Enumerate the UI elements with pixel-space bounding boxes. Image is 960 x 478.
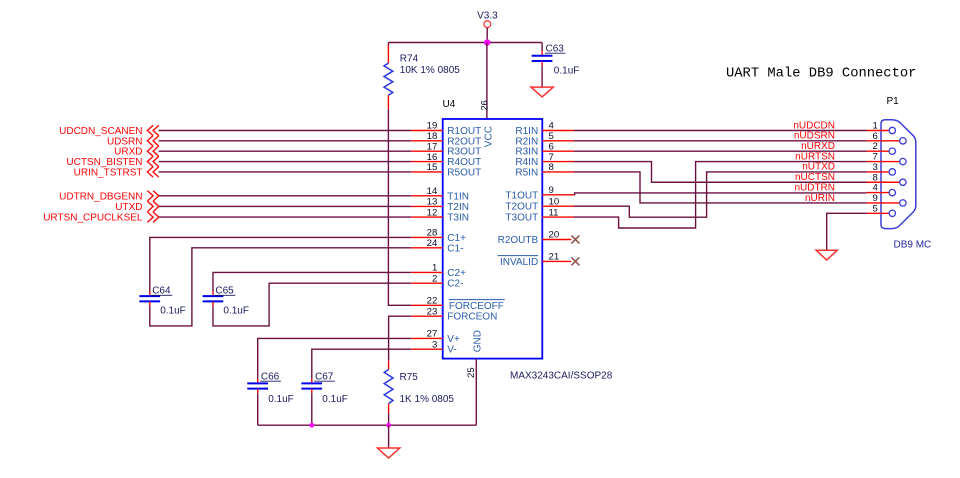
wire net UTXD — [159, 205, 412, 207]
svg-text:12: 12 — [427, 207, 438, 218]
svg-text:C2+: C2+ — [447, 268, 466, 279]
svg-text:URTSN_CPUCLKSEL: URTSN_CPUCLKSEL — [43, 213, 143, 224]
svg-text:R3IN: R3IN — [515, 147, 538, 158]
wire C67 to rail — [311, 393, 313, 425]
capacitor C67 — [301, 372, 347, 405]
ground at DB9 — [816, 250, 837, 260]
svg-text:VCC: VCC — [483, 126, 494, 147]
wire C64 bottom to C1- — [150, 248, 411, 326]
wire net nURIN — [574, 172, 867, 203]
svg-text:R4IN: R4IN — [515, 157, 538, 168]
wire V- to C67 — [312, 349, 411, 379]
connector P1 pin circles left column — [889, 127, 895, 216]
wire FORCEON to R75 — [389, 316, 412, 361]
no-connect X pin 21 — [571, 257, 579, 265]
svg-text:0.1uF: 0.1uF — [322, 394, 348, 405]
svg-text:17: 17 — [427, 141, 438, 152]
wire net UCTSN_BISTEN — [159, 161, 412, 163]
svg-text:U4: U4 — [443, 99, 456, 110]
svg-text:0.1uF: 0.1uF — [554, 66, 580, 77]
wire DB9 pin5 to ground — [827, 213, 867, 250]
svg-text:1K 1% 0805: 1K 1% 0805 — [400, 394, 455, 405]
svg-text:nURIN: nURIN — [805, 193, 835, 204]
U4 left pin numbers — [427, 121, 438, 351]
connector P1 DB9 pin numbers — [872, 121, 878, 215]
svg-text:16: 16 — [427, 152, 438, 163]
junction R75 rail — [386, 423, 391, 428]
svg-text:R3OUT: R3OUT — [447, 147, 481, 158]
ground bottom — [377, 448, 399, 458]
svg-text:9: 9 — [872, 193, 877, 204]
ground under C63 — [531, 87, 553, 97]
svg-text:13: 13 — [427, 197, 438, 208]
svg-text:2: 2 — [872, 141, 877, 152]
svg-text:R75: R75 — [400, 372, 419, 383]
wire net UDTRN_DBGENN — [159, 195, 412, 197]
wire net UDSRN — [159, 140, 412, 142]
svg-text:25: 25 — [466, 367, 477, 378]
svg-text:0.1uF: 0.1uF — [160, 306, 186, 317]
svg-text:15: 15 — [427, 162, 438, 173]
svg-text:C1+: C1+ — [447, 233, 466, 244]
connector P1 DB9 pin stubs — [867, 131, 900, 214]
U4 right pin names — [498, 126, 539, 268]
wire R75 to rail — [388, 414, 390, 426]
svg-text:11: 11 — [549, 207, 559, 218]
svg-text:8: 8 — [872, 172, 877, 183]
svg-text:UCTSN_BISTEN: UCTSN_BISTEN — [66, 157, 142, 168]
U4 right pin stubs — [542, 131, 574, 262]
title text — [726, 66, 916, 82]
svg-text:V-: V- — [447, 345, 456, 356]
svg-text:T1IN: T1IN — [447, 191, 469, 202]
svg-text:1: 1 — [432, 263, 437, 274]
wire net nUTXD — [574, 172, 867, 217]
svg-text:21: 21 — [549, 251, 560, 262]
svg-text:nUDSRN: nUDSRN — [794, 131, 835, 142]
wire C65 bottom to C2- — [213, 283, 411, 326]
svg-text:GND: GND — [473, 330, 484, 352]
capacitor C66 — [247, 372, 293, 405]
svg-text:1: 1 — [872, 121, 877, 132]
wire net nUDTRN — [574, 193, 867, 195]
svg-text:R1OUT: R1OUT — [447, 126, 481, 137]
svg-text:V+: V+ — [447, 334, 460, 345]
svg-text:0.1uF: 0.1uF — [268, 394, 294, 405]
resistor R75 — [384, 361, 454, 414]
svg-text:23: 23 — [427, 306, 438, 317]
chevrons output left group — [147, 191, 158, 223]
svg-text:24: 24 — [427, 238, 438, 249]
svg-text:T2IN: T2IN — [447, 202, 469, 213]
resistor R74 — [384, 43, 460, 110]
svg-text:T1OUT: T1OUT — [505, 191, 538, 202]
svg-text:14: 14 — [427, 186, 438, 197]
junction C67 rail — [309, 423, 314, 428]
chevrons input left group — [147, 125, 158, 177]
svg-text:URIN_TSTRST: URIN_TSTRST — [74, 167, 143, 178]
svg-text:T3OUT: T3OUT — [505, 213, 538, 224]
svg-text:MAX3243CAI/SSOP28: MAX3243CAI/SSOP28 — [510, 371, 613, 382]
wire net URTSN_CPUCLKSEL — [159, 216, 412, 218]
svg-text:18: 18 — [427, 131, 438, 142]
wire GND pin stub — [475, 359, 477, 425]
svg-text:V3.3: V3.3 — [477, 11, 498, 22]
svg-text:C1-: C1- — [447, 243, 463, 254]
svg-text:nUDTRN: nUDTRN — [794, 182, 835, 193]
svg-text:9: 9 — [549, 185, 554, 196]
wire V+ to C66 — [258, 338, 412, 379]
svg-text:26: 26 — [479, 100, 490, 111]
svg-text:10: 10 — [549, 196, 560, 207]
junction top — [484, 39, 490, 45]
svg-text:R4OUT: R4OUT — [447, 157, 481, 168]
svg-text:R5OUT: R5OUT — [447, 167, 481, 178]
svg-text:28: 28 — [427, 228, 438, 239]
svg-text:nUCTSN: nUCTSN — [795, 172, 835, 183]
svg-text:5: 5 — [549, 131, 554, 142]
svg-text:R5IN: R5IN — [515, 167, 538, 178]
wire net nUDSRN — [574, 140, 867, 142]
U4 rotated texts VCC GND 26 25 — [466, 100, 494, 378]
wire net UDCDN_SCANEN — [159, 130, 412, 132]
wire net URXD — [159, 150, 412, 152]
svg-text:INVALID: INVALID — [500, 257, 538, 268]
svg-text:URXD: URXD — [114, 147, 142, 158]
svg-text:UDTRN_DBGENN: UDTRN_DBGENN — [59, 191, 142, 202]
wire VCC drop — [486, 43, 488, 120]
svg-text:C2-: C2- — [447, 279, 463, 290]
svg-text:2: 2 — [432, 273, 437, 284]
svg-text:UDSRN: UDSRN — [107, 136, 143, 147]
svg-text:3: 3 — [872, 162, 877, 173]
svg-text:T2OUT: T2OUT — [505, 202, 538, 213]
power symbol V3.3 — [477, 11, 498, 43]
svg-text:R1IN: R1IN — [515, 126, 538, 137]
svg-text:R2OUTB: R2OUTB — [498, 235, 539, 246]
wire net nURXD — [574, 150, 867, 152]
svg-text:22: 22 — [427, 296, 438, 307]
svg-text:6: 6 — [549, 141, 554, 152]
svg-text:7: 7 — [549, 152, 554, 163]
svg-text:8: 8 — [549, 162, 554, 173]
capacitor C65 — [203, 272, 412, 316]
svg-text:4: 4 — [549, 121, 555, 132]
svg-text:7: 7 — [872, 152, 877, 163]
svg-text:nUTXD: nUTXD — [802, 162, 835, 173]
svg-text:P1: P1 — [887, 96, 900, 107]
svg-text:nURXD: nURXD — [801, 141, 835, 152]
svg-text:UART Male DB9 Connector: UART Male DB9 Connector — [726, 66, 916, 82]
svg-text:R74: R74 — [400, 54, 419, 65]
svg-text:10K 1% 0805: 10K 1% 0805 — [400, 65, 460, 76]
svg-text:5: 5 — [872, 203, 877, 214]
wire ground rail — [258, 424, 477, 426]
svg-text:R2OUT: R2OUT — [447, 136, 481, 147]
svg-text:27: 27 — [427, 329, 438, 340]
svg-text:20: 20 — [549, 229, 560, 240]
wire net URIN_TSTRST — [159, 171, 412, 173]
U4 left pin stubs — [411, 131, 443, 350]
svg-text:UTXD: UTXD — [115, 202, 142, 213]
svg-text:0.1uF: 0.1uF — [223, 306, 249, 317]
connector P1 DB9 body — [881, 96, 931, 251]
U4 left pin names — [447, 126, 505, 356]
wire R74 to FORCEOFF — [388, 109, 411, 305]
svg-text:nUDCDN: nUDCDN — [793, 120, 835, 131]
wire net nUCTSN — [574, 162, 867, 183]
svg-text:T3IN: T3IN — [447, 213, 469, 224]
wire net nUDCDN — [574, 130, 867, 132]
capacitor C64 — [139, 237, 411, 316]
svg-text:DB9 MC: DB9 MC — [894, 240, 932, 251]
wire C66 to rail — [257, 393, 259, 425]
svg-text:UDCDN_SCANEN: UDCDN_SCANEN — [59, 126, 142, 137]
svg-text:FORCEON: FORCEON — [447, 312, 497, 323]
U4 right pin numbers — [549, 121, 560, 263]
connector P1 pin circles right column — [900, 138, 906, 206]
wire rail to ground symbol — [388, 425, 390, 448]
wire C63 to ground — [541, 66, 543, 88]
no-connect X pin 20 — [571, 236, 579, 244]
svg-text:19: 19 — [427, 121, 438, 132]
svg-text:4: 4 — [872, 183, 878, 194]
capacitor C63 — [532, 43, 580, 77]
wire top rail V3.3 — [388, 42, 542, 44]
svg-text:6: 6 — [872, 131, 877, 142]
svg-text:R2IN: R2IN — [515, 136, 538, 147]
svg-text:3: 3 — [432, 339, 437, 350]
svg-text:nURTSN: nURTSN — [795, 151, 835, 162]
wire net nURTSN — [574, 162, 867, 228]
IC U4 body — [443, 99, 613, 382]
svg-text:FORCEOFF: FORCEOFF — [449, 301, 504, 312]
